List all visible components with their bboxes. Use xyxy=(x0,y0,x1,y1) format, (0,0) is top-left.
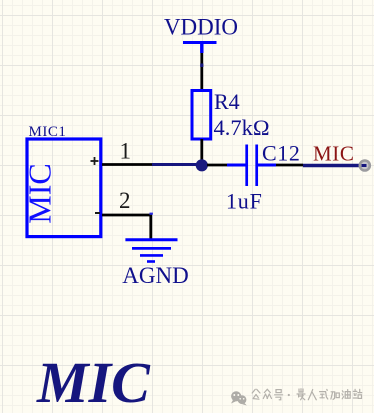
svg-text:1: 1 xyxy=(120,139,132,164)
svg-text:1uF: 1uF xyxy=(226,189,263,214)
svg-text:2: 2 xyxy=(119,188,131,213)
svg-text:MIC1: MIC1 xyxy=(29,124,67,140)
svg-text:R4: R4 xyxy=(214,89,240,114)
svg-text:VDDIO: VDDIO xyxy=(164,15,238,40)
svg-text:MIC: MIC xyxy=(22,163,58,223)
svg-text:MIC: MIC xyxy=(36,350,151,413)
svg-text:AGND: AGND xyxy=(122,263,188,288)
svg-text:4.7kΩ: 4.7kΩ xyxy=(214,115,270,140)
svg-text:MIC: MIC xyxy=(313,142,354,166)
svg-text:C12: C12 xyxy=(262,141,300,166)
